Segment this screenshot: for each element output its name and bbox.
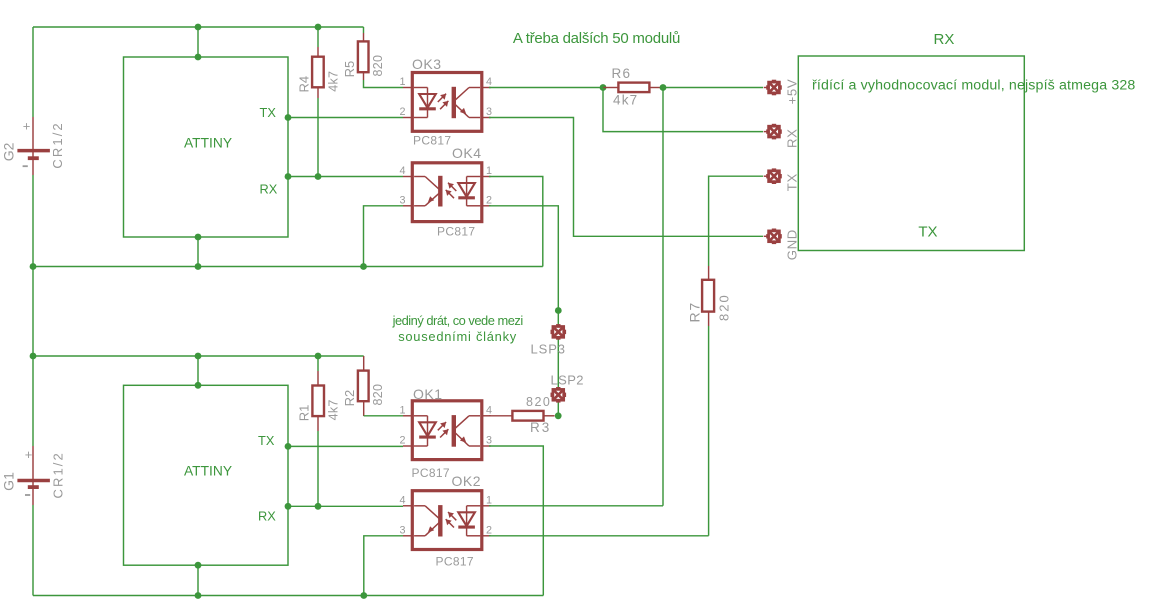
- pad LSP3: [552, 325, 565, 338]
- wire OK2 pin1 to +5V net: [489, 505, 663, 507]
- wire rail2 to ATTINY2 top: [197, 356, 199, 385]
- wire ATTINY2 bottom to rail: [197, 565, 199, 595]
- wire OK3 pin3 to GND pad: [489, 118, 763, 237]
- resistor R3 body: [512, 411, 543, 421]
- svg-text:820: 820: [371, 55, 385, 77]
- battery G1 long plate: [17, 479, 50, 483]
- label - G1: [25, 494, 30, 496]
- svg-text:R3: R3: [530, 420, 551, 435]
- junction LSP stub: [555, 307, 562, 314]
- wire OK4 pin3 to gnd rail: [364, 206, 404, 267]
- wire net RX1: [288, 176, 403, 178]
- module box RX controller: [798, 56, 1024, 251]
- wire R6 to +5V pad: [663, 87, 763, 89]
- wire G2 positive lead: [32, 27, 34, 117]
- wire R6 junction to RX pad: [603, 88, 763, 132]
- wire G1 negative lead: [32, 505, 34, 596]
- wire G1 positive lead: [32, 356, 34, 446]
- pad LSP2: [552, 388, 565, 401]
- svg-text:1: 1: [399, 76, 405, 88]
- svg-text:G1: G1: [1, 472, 17, 491]
- svg-text:1: 1: [486, 494, 492, 506]
- svg-text:ATTINY: ATTINY: [184, 464, 232, 479]
- battery G1 pin lead: [32, 446, 34, 505]
- junction bottom rail-ATTINY2: [195, 592, 202, 599]
- svg-text:PC817: PC817: [436, 555, 474, 569]
- svg-text:4k7: 4k7: [327, 399, 341, 420]
- svg-text:RX: RX: [258, 509, 276, 524]
- svg-text:LSP2: LSP2: [551, 372, 584, 387]
- svg-text:RX: RX: [260, 181, 278, 196]
- resistor R7 leads: [708, 266, 710, 280]
- svg-text:4: 4: [486, 404, 492, 416]
- svg-text:2: 2: [399, 106, 405, 118]
- svg-text:+: +: [25, 447, 33, 462]
- wire lower +V rail: [33, 355, 364, 357]
- svg-text:+5V: +5V: [785, 79, 800, 105]
- svg-text:3: 3: [486, 106, 492, 118]
- junction rail2-battery: [30, 353, 37, 360]
- optocoupler OK4: [403, 163, 491, 222]
- wire net TX1: [288, 117, 403, 119]
- svg-text:PC817: PC817: [412, 466, 450, 480]
- optocoupler OK3: [403, 73, 491, 132]
- junction RX1-R4: [315, 173, 322, 180]
- svg-text:820: 820: [371, 384, 385, 406]
- wire OK4 pin2 to LSP pads: [489, 206, 558, 311]
- label - G2: [23, 165, 28, 167]
- svg-text:1: 1: [486, 165, 492, 177]
- junction rail2-ATTINY2: [195, 353, 202, 360]
- resistor R4 leads: [317, 27, 319, 47]
- svg-text:R4: R4: [297, 76, 312, 93]
- wire LSP3-LSP2-R3: [557, 311, 559, 416]
- pad TX: [764, 170, 781, 183]
- junction RX2 pin: [285, 503, 292, 510]
- svg-text:4: 4: [486, 76, 492, 88]
- resistor R1 body: [312, 386, 324, 417]
- svg-text:TX: TX: [258, 433, 275, 448]
- wire net RX2: [288, 505, 403, 507]
- wire upper ground rail: [33, 266, 543, 268]
- resistor R5 body: [358, 41, 369, 72]
- svg-text:PC817: PC817: [437, 225, 475, 239]
- svg-text:A třeba dalších 50 modulů: A třeba dalších 50 modulů: [513, 30, 680, 47]
- resistor R5 leads: [363, 27, 365, 33]
- svg-text:RX: RX: [785, 128, 800, 148]
- junction TX1 pin: [285, 114, 292, 121]
- wire TX pad to R7: [709, 176, 763, 266]
- wire bottom ground rail: [33, 595, 543, 597]
- pad +5V: [764, 81, 781, 94]
- svg-text:OK2: OK2: [452, 473, 482, 489]
- svg-text:řídící a vyhodnocovací modul,: řídící a vyhodnocovací modul, nejspíš at…: [812, 78, 1135, 94]
- junction rail1-R4: [315, 24, 322, 31]
- battery G2 long plate: [17, 149, 50, 153]
- wire series link G2- to G1+: [32, 267, 34, 357]
- battery G2 pin lead: [32, 117, 34, 175]
- svg-text:4: 4: [399, 165, 405, 177]
- pad RX: [764, 125, 781, 138]
- resistor R3 leads: [544, 415, 555, 417]
- junction RX1 pin: [285, 173, 292, 180]
- svg-text:OK3: OK3: [412, 56, 442, 72]
- junction rail1-ATTINY: [195, 24, 202, 31]
- wire OK2 pin2 to R7 net: [489, 535, 709, 537]
- module box ATTINY lower: [124, 385, 289, 565]
- svg-text:1: 1: [399, 404, 405, 416]
- svg-text:3: 3: [486, 435, 492, 447]
- svg-text:4k7: 4k7: [326, 71, 340, 92]
- junction RX2-R1: [315, 503, 322, 510]
- resistor R6 body: [618, 83, 649, 93]
- junction ATTINY bottom: [195, 234, 202, 241]
- svg-text:4: 4: [399, 494, 405, 506]
- resistor R6 leads: [603, 87, 618, 89]
- svg-text:R6: R6: [612, 66, 632, 81]
- junction ATTINY2 bottom: [195, 562, 202, 569]
- wire OK1 pin3 to bottom rail: [489, 446, 543, 596]
- svg-text:PC817: PC817: [413, 134, 451, 148]
- svg-text:TX: TX: [260, 105, 277, 120]
- wire OK2 pin3 to bottom rail: [364, 536, 403, 596]
- battery G2 short plate: [28, 156, 39, 160]
- junction bottom rail-OK2 pin3: [360, 592, 367, 599]
- svg-text:R2: R2: [342, 390, 357, 407]
- svg-text:2: 2: [486, 194, 492, 206]
- svg-text:LSP3: LSP3: [531, 342, 566, 357]
- battery G1 short plate: [28, 485, 39, 489]
- wire ATTINY bottom to gnd rail: [197, 237, 199, 267]
- resistor R7 body: [702, 280, 714, 312]
- svg-text:820: 820: [526, 395, 551, 409]
- junction gnd rail-battery: [30, 263, 37, 270]
- wire net TX2: [288, 445, 403, 447]
- svg-text:sousedními články: sousedními články: [398, 329, 517, 344]
- svg-text:3: 3: [399, 194, 405, 206]
- wire R5 to OK3 pin1: [364, 80, 404, 88]
- svg-text:4k7: 4k7: [613, 92, 638, 107]
- junction TX2 pin: [285, 443, 292, 450]
- optocoupler OK2: [403, 491, 491, 550]
- junction gnd rail-OK4 pin3: [360, 263, 367, 270]
- wire G2 negative lead down to ground rail: [32, 175, 34, 267]
- wire rail1 to ATTINY top: [197, 27, 199, 57]
- svg-text:OK1: OK1: [413, 386, 443, 402]
- svg-text:R7: R7: [686, 301, 702, 323]
- junction rail2-R1: [315, 353, 322, 360]
- resistor R4 body: [312, 57, 324, 88]
- svg-text:TX: TX: [785, 173, 800, 191]
- wire top +V rail of upper module: [33, 26, 364, 28]
- wire R2 to OK1 pin1: [364, 415, 403, 417]
- wire +5V net down to OK2 pin1: [662, 88, 664, 506]
- junction R6 right: [660, 84, 667, 91]
- optocoupler OK1: [403, 401, 491, 460]
- svg-text:820: 820: [717, 293, 732, 321]
- resistor R2 body: [358, 371, 369, 402]
- svg-text:TX: TX: [918, 224, 937, 241]
- junction ATTINY2 top: [195, 382, 202, 389]
- svg-text:RX: RX: [934, 31, 955, 48]
- resistor R1 leads: [317, 356, 319, 371]
- svg-text:OK4: OK4: [452, 145, 482, 161]
- module box ATTINY upper: [124, 57, 289, 237]
- resistor R2 leads: [363, 356, 365, 371]
- svg-text:3: 3: [399, 524, 405, 536]
- wire OK4 pin1 to gnd rail: [489, 177, 543, 267]
- svg-text:R5: R5: [342, 61, 357, 78]
- svg-text:2: 2: [486, 524, 492, 536]
- junction R6 left: [600, 84, 607, 91]
- svg-text:2: 2: [399, 435, 405, 447]
- junction ATTINY top: [195, 54, 202, 61]
- svg-text:G2: G2: [0, 142, 16, 161]
- svg-text:R1: R1: [297, 405, 312, 422]
- junction gnd rail-ATTINY: [195, 263, 202, 270]
- wire OK3 pin4 to R6: [489, 87, 603, 89]
- svg-text:CR1/2: CR1/2: [50, 121, 65, 168]
- wire OK1 pin4 to R3: [489, 415, 512, 417]
- pad GND: [764, 230, 781, 243]
- wire R7 to OK2 pin2: [708, 326, 710, 536]
- svg-text:GND: GND: [785, 229, 800, 260]
- svg-text:ATTINY: ATTINY: [184, 136, 232, 151]
- svg-text:jediný drát, co vede mezi: jediný drát, co vede mezi: [392, 313, 523, 328]
- svg-text:CR1/2: CR1/2: [51, 451, 66, 498]
- svg-text:+: +: [23, 119, 31, 134]
- junction R3-LSP net: [555, 412, 562, 419]
